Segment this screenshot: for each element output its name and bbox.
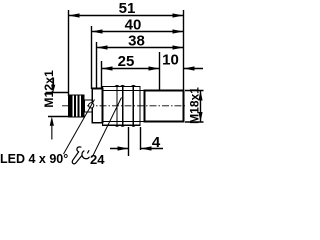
svg-text:M18x1: M18x1	[187, 87, 201, 124]
svg-text:24: 24	[90, 152, 105, 165]
svg-text:38: 38	[128, 33, 145, 50]
svg-text:LED 4 x 90°: LED 4 x 90°	[0, 152, 68, 165]
svg-text:10: 10	[162, 52, 179, 69]
svg-text:51: 51	[119, 0, 136, 17]
svg-text:25: 25	[118, 53, 135, 70]
svg-text:4: 4	[152, 134, 161, 151]
svg-text:40: 40	[125, 17, 142, 34]
svg-text:M12x1: M12x1	[42, 70, 56, 108]
